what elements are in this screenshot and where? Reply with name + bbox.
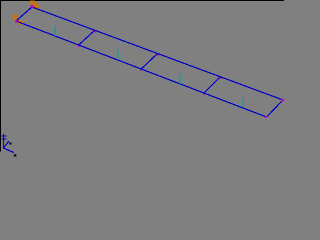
node at divider 2 top [157, 54, 159, 56]
triad axis lower-right [4, 148, 14, 153]
node at divider 3 top [220, 78, 222, 80]
triad axis upper-right [4, 141, 10, 148]
triad axis tick 2 [2, 138, 7, 140]
triad label I [14, 154, 17, 157]
triad axis tick 1 [2, 135, 7, 137]
wire: mesh left end edge A-D [16, 7, 32, 21]
node B (magenta) [282, 99, 285, 102]
node D (magenta) [15, 21, 17, 23]
wire: mesh right end edge B-C [267, 100, 284, 117]
wire: element divider 1 [79, 30, 95, 45]
constraint marker at node D [12, 14, 22, 24]
node at divider 3 bottom [203, 93, 205, 95]
wire: mesh top edge A-B [32, 7, 283, 100]
node at divider 1 top [94, 31, 96, 33]
element 2 normal tick [117, 50, 119, 61]
triad vertical axis [3, 134, 5, 149]
window border left [0, 0, 1, 152]
element 4 normal tick [242, 98, 244, 108]
element 3 normal tick [179, 74, 181, 84]
node A (magenta) [31, 5, 34, 8]
wire: element divider 3 [204, 77, 220, 93]
triad label dot [10, 142, 12, 144]
canvas background [0, 0, 284, 157]
element 1 normal tick [54, 26, 56, 36]
node at divider 1 bottom [78, 45, 80, 47]
wire: element divider 2 [141, 54, 157, 70]
node at divider 2 bottom [141, 69, 143, 71]
node C (magenta) [265, 116, 267, 118]
wire: mesh bottom edge D-C [16, 21, 267, 117]
window border top [0, 0, 284, 1]
constraint marker at node A [30, 1, 40, 10]
